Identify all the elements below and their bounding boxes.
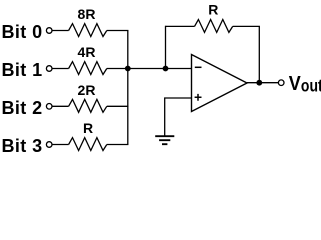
wire output — [247, 82, 278, 84]
svg-text:4R: 4R — [78, 44, 96, 60]
resistor R feedback — [195, 20, 233, 33]
svg-text:R: R — [83, 120, 93, 136]
wire — [52, 30, 68, 32]
junction bus-Bit1 — [125, 66, 131, 72]
wire feedback left vertical — [165, 26, 167, 69]
terminal Bit 1 — [46, 66, 52, 72]
wire — [107, 30, 129, 32]
wire — [107, 105, 129, 107]
wire — [52, 144, 68, 146]
op-amp U1 — [192, 55, 248, 112]
resistor R1 — [69, 138, 107, 151]
svg-text:Bit 0: Bit 0 — [2, 22, 43, 42]
op-amp plus pin symbol — [195, 94, 202, 101]
ground — [155, 136, 174, 144]
wire non-inverting input — [165, 98, 192, 136]
terminal Vout — [278, 80, 284, 86]
wire feedback right vertical — [258, 26, 260, 82]
resistor 4R — [69, 62, 107, 75]
terminal Bit 3 — [46, 142, 52, 148]
wire — [52, 68, 68, 70]
wire summing node to op-amp inverting input — [128, 68, 192, 70]
junction feedback tap — [163, 66, 169, 72]
op-amp minus pin symbol — [195, 66, 202, 68]
resistor 2R — [69, 99, 107, 112]
svg-text:Bit 2: Bit 2 — [2, 98, 43, 118]
wire — [107, 144, 129, 146]
terminal Bit 0 — [46, 28, 52, 34]
terminal Bit 2 — [46, 104, 52, 110]
svg-text:out: out — [301, 77, 321, 96]
wire — [107, 68, 128, 70]
svg-text:V: V — [289, 73, 301, 95]
junction output-feedback — [256, 80, 262, 86]
svg-text:Bit 1: Bit 1 — [2, 60, 43, 80]
svg-text:2R: 2R — [78, 82, 96, 98]
resistor 8R — [69, 24, 107, 37]
svg-text:8R: 8R — [78, 6, 96, 22]
svg-text:R: R — [208, 2, 218, 18]
wire bus vertical — [127, 31, 129, 145]
wire — [166, 25, 195, 27]
wire — [233, 25, 260, 27]
wire — [52, 105, 68, 107]
svg-text:Bit 3: Bit 3 — [2, 136, 43, 156]
